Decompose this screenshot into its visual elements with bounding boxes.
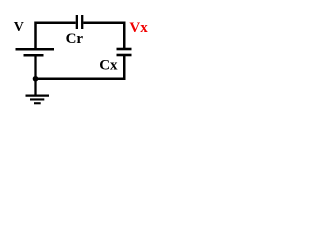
svg-text:Cr: Cr (66, 31, 84, 47)
svg-text:Vx: Vx (129, 20, 148, 36)
svg-text:V: V (14, 20, 24, 35)
svg-text:Cx: Cx (99, 58, 118, 74)
